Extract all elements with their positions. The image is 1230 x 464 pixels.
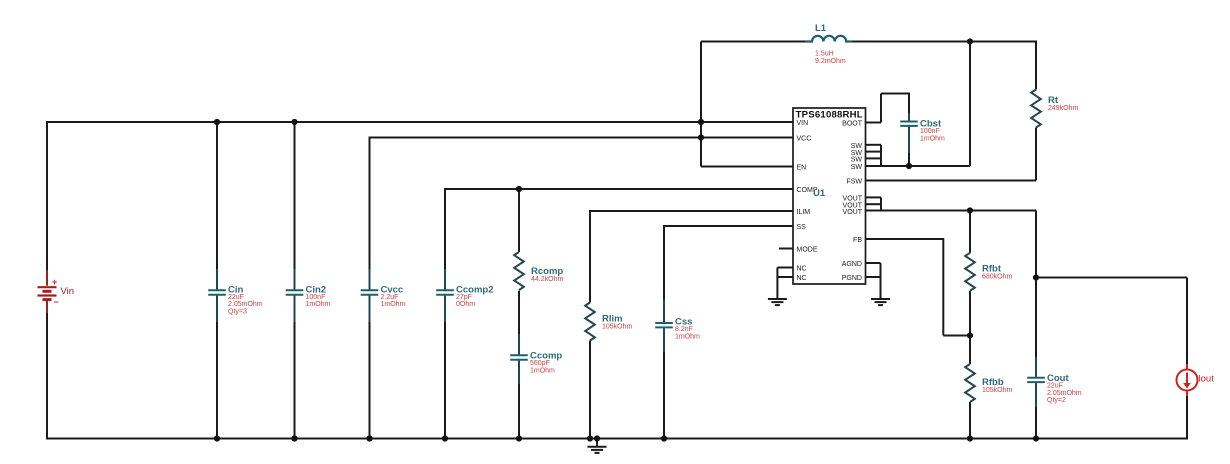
svg-text:9.2mOhm: 9.2mOhm xyxy=(815,58,846,65)
wire BOOT top xyxy=(881,93,909,95)
wire Cin2 column upper xyxy=(294,122,296,269)
wire Rcomp to Ccomp xyxy=(518,291,520,334)
junction SW top rail xyxy=(967,38,973,44)
svg-text:NC: NC xyxy=(797,275,807,282)
junction FB divider xyxy=(967,332,973,338)
svg-text:2.05mOhm: 2.05mOhm xyxy=(1047,390,1082,397)
svg-text:0Ohm: 0Ohm xyxy=(456,301,475,308)
junction Ccomp bottom xyxy=(516,435,522,441)
ground PGND xyxy=(871,299,890,305)
wire VCC line xyxy=(370,137,794,139)
svg-text:AGND: AGND xyxy=(842,261,862,268)
wire BOOT riser xyxy=(880,94,882,123)
junction Cbst bottom xyxy=(906,163,912,169)
wire VOUT bus xyxy=(880,197,882,210)
wire SW stub 3 xyxy=(866,157,882,159)
svg-text:105kOhm: 105kOhm xyxy=(982,387,1013,394)
junction Ccomp2 bottom xyxy=(442,435,448,441)
wire SW line xyxy=(866,165,971,167)
svg-text:NC: NC xyxy=(797,266,807,273)
svg-text:VIN: VIN xyxy=(797,120,809,127)
svg-text:249kOhm: 249kOhm xyxy=(1048,105,1079,112)
svg-text:22uF: 22uF xyxy=(228,294,244,301)
voltage source Vin xyxy=(38,270,59,313)
capacitor Cbst xyxy=(900,113,945,153)
ground bottom rail xyxy=(588,447,607,453)
wire Rt column upper xyxy=(1035,41,1037,90)
junction Rcomp top xyxy=(516,186,522,192)
svg-text:TPS61088RHL: TPS61088RHL xyxy=(796,110,863,121)
wire SW bus xyxy=(880,145,882,166)
svg-text:Qty=2: Qty=2 xyxy=(1047,397,1066,404)
wire FB drop xyxy=(942,238,944,336)
svg-text:SS: SS xyxy=(797,224,807,231)
svg-text:VCC: VCC xyxy=(797,136,812,143)
wire NC stub 1 xyxy=(777,267,793,269)
wire SS line xyxy=(664,225,793,227)
svg-text:1.5uH: 1.5uH xyxy=(815,51,834,58)
wire SW stub 1 xyxy=(866,144,882,146)
wire top rail right of L1 xyxy=(851,41,1036,43)
svg-text:EN: EN xyxy=(797,165,807,172)
junction Cin bottom xyxy=(214,435,220,441)
svg-text:100nF: 100nF xyxy=(920,128,940,135)
svg-text:−: − xyxy=(54,297,59,307)
wire Css column upper xyxy=(663,225,665,299)
junction VCC branch xyxy=(698,134,704,140)
junction Rfbb bottom xyxy=(967,435,973,441)
svg-text:L1: L1 xyxy=(815,23,827,34)
wire Vin column upper xyxy=(46,121,48,270)
svg-text:MODE: MODE xyxy=(797,247,818,254)
wire Rfbt to Rfbb xyxy=(969,291,971,364)
wire Cvcc column upper xyxy=(369,137,371,270)
svg-text:Qty=3: Qty=3 xyxy=(228,309,247,316)
wire VOUT stub 1 xyxy=(866,196,882,198)
wire Cout column upper xyxy=(1035,211,1037,358)
resistor Rlim xyxy=(585,303,632,341)
junction VOUT Rfbt xyxy=(967,207,973,213)
wire FB line xyxy=(866,238,944,240)
current source Iout xyxy=(1177,364,1215,396)
wire Iout column lower xyxy=(1186,396,1188,440)
wire Vin column lower xyxy=(46,313,48,440)
junction Iout branch xyxy=(1033,274,1039,280)
svg-text:1mOhm: 1mOhm xyxy=(306,301,331,308)
capacitor Cin2 xyxy=(286,269,331,322)
inductor L1 xyxy=(805,23,852,65)
capacitor Ccomp2 xyxy=(436,269,493,322)
wire FB to divider xyxy=(943,335,970,337)
resistor Rt xyxy=(1031,90,1078,128)
svg-text:44.2kOhm: 44.2kOhm xyxy=(531,276,563,283)
wire FSW line xyxy=(866,180,1037,182)
wire bottom rail xyxy=(46,438,1188,440)
svg-text:22uF: 22uF xyxy=(1047,383,1063,390)
wire SW riser xyxy=(969,42,971,167)
svg-text:560pF: 560pF xyxy=(530,360,550,367)
svg-text:100nF: 100nF xyxy=(306,294,326,301)
wire NC stub 2 xyxy=(777,276,793,278)
svg-text:SW: SW xyxy=(851,164,863,171)
capacitor Cout xyxy=(1027,357,1082,407)
wire top rail left of L1 xyxy=(701,41,806,43)
capacitor Cvcc xyxy=(361,269,406,322)
wire Ccomp2 column upper xyxy=(444,188,446,269)
wire Rlim column lower xyxy=(589,341,591,439)
wire Iout branch xyxy=(1036,277,1187,279)
wire Cvcc column lower xyxy=(369,322,371,439)
wire VIN rail xyxy=(46,121,793,123)
wire Cin column upper xyxy=(216,122,218,269)
wire Ccomp2 column lower xyxy=(444,322,446,439)
resistor Rcomp xyxy=(514,252,563,290)
svg-text:8.2nF: 8.2nF xyxy=(675,326,693,333)
capacitor Ccomp xyxy=(510,334,562,384)
wire Cbst top lead xyxy=(908,93,910,114)
svg-text:Vin: Vin xyxy=(61,286,75,297)
wire VOUT rail xyxy=(866,210,1037,212)
svg-text:105kOhm: 105kOhm xyxy=(602,324,633,331)
svg-text:2.05mOhm: 2.05mOhm xyxy=(228,301,263,308)
resistor Rfbb xyxy=(965,364,1012,402)
wire AGND stub xyxy=(866,262,881,264)
wire PGND stub xyxy=(866,276,881,278)
ground NC xyxy=(768,299,787,305)
wire Ccomp column lower xyxy=(518,384,520,439)
junction VIN branch xyxy=(698,119,704,125)
wire SW stub 2 xyxy=(866,151,882,153)
wire Rt column lower xyxy=(1035,128,1037,181)
svg-text:2.2uF: 2.2uF xyxy=(381,294,399,301)
wire Iout column upper xyxy=(1186,278,1188,365)
svg-text:PGND: PGND xyxy=(842,275,862,282)
svg-text:1mOhm: 1mOhm xyxy=(530,367,555,374)
junction Css bottom xyxy=(661,435,667,441)
wire NC drop xyxy=(776,268,778,300)
wire ILIM line xyxy=(590,210,793,212)
wire Css column lower xyxy=(663,352,665,439)
junction Cin top xyxy=(214,119,220,125)
junction Cin2 bottom xyxy=(291,435,297,441)
svg-text:U1: U1 xyxy=(813,188,826,199)
svg-text:BOOT: BOOT xyxy=(842,121,863,128)
svg-text:Iout: Iout xyxy=(1198,374,1214,385)
wire VOUT stub 2 xyxy=(866,203,882,205)
wire COMP line xyxy=(445,188,793,190)
svg-text:1mOhm: 1mOhm xyxy=(675,333,700,340)
wire BOOT stub xyxy=(866,122,882,124)
wire VIN-EN branch vertical xyxy=(700,42,702,167)
junction Cout bottom xyxy=(1033,435,1039,441)
wire MODE stub xyxy=(779,248,793,250)
label Vin xyxy=(61,286,75,297)
svg-text:VOUT: VOUT xyxy=(843,209,863,216)
wire EN line xyxy=(701,166,793,168)
capacitor Css xyxy=(655,299,700,352)
wire Rcomp column upper xyxy=(518,189,520,252)
svg-text:+: + xyxy=(52,277,57,287)
svg-text:FB: FB xyxy=(853,237,862,244)
wire Rfbb column lower xyxy=(969,402,971,439)
wire ground stub bottom xyxy=(596,439,598,447)
svg-text:FSW: FSW xyxy=(846,179,862,186)
svg-text:ILIM: ILIM xyxy=(797,209,811,216)
wire Rfbt column upper xyxy=(969,211,971,253)
svg-text:1mOhm: 1mOhm xyxy=(920,135,945,142)
junction Rlim bottom xyxy=(587,435,593,441)
svg-text:SW: SW xyxy=(851,157,863,164)
junction Cin2 top xyxy=(291,119,297,125)
wire Cbst bottom lead xyxy=(908,153,910,166)
wire Cin column lower xyxy=(216,322,218,439)
resistor Rfbt xyxy=(965,253,1012,291)
capacitor Cin xyxy=(208,269,263,322)
wire AGND PGND drop xyxy=(880,263,882,299)
junction Cvcc bottom xyxy=(366,435,372,441)
wire Cin2 column lower xyxy=(294,322,296,439)
wire Cout column lower xyxy=(1035,407,1037,439)
op-amp U1 TPS61088RHL xyxy=(793,108,866,284)
junction ground bottom xyxy=(594,435,600,441)
wire Rlim column upper xyxy=(589,210,591,303)
svg-text:680kOhm: 680kOhm xyxy=(982,274,1013,281)
svg-text:1mOhm: 1mOhm xyxy=(381,301,406,308)
svg-text:27pF: 27pF xyxy=(456,294,472,301)
